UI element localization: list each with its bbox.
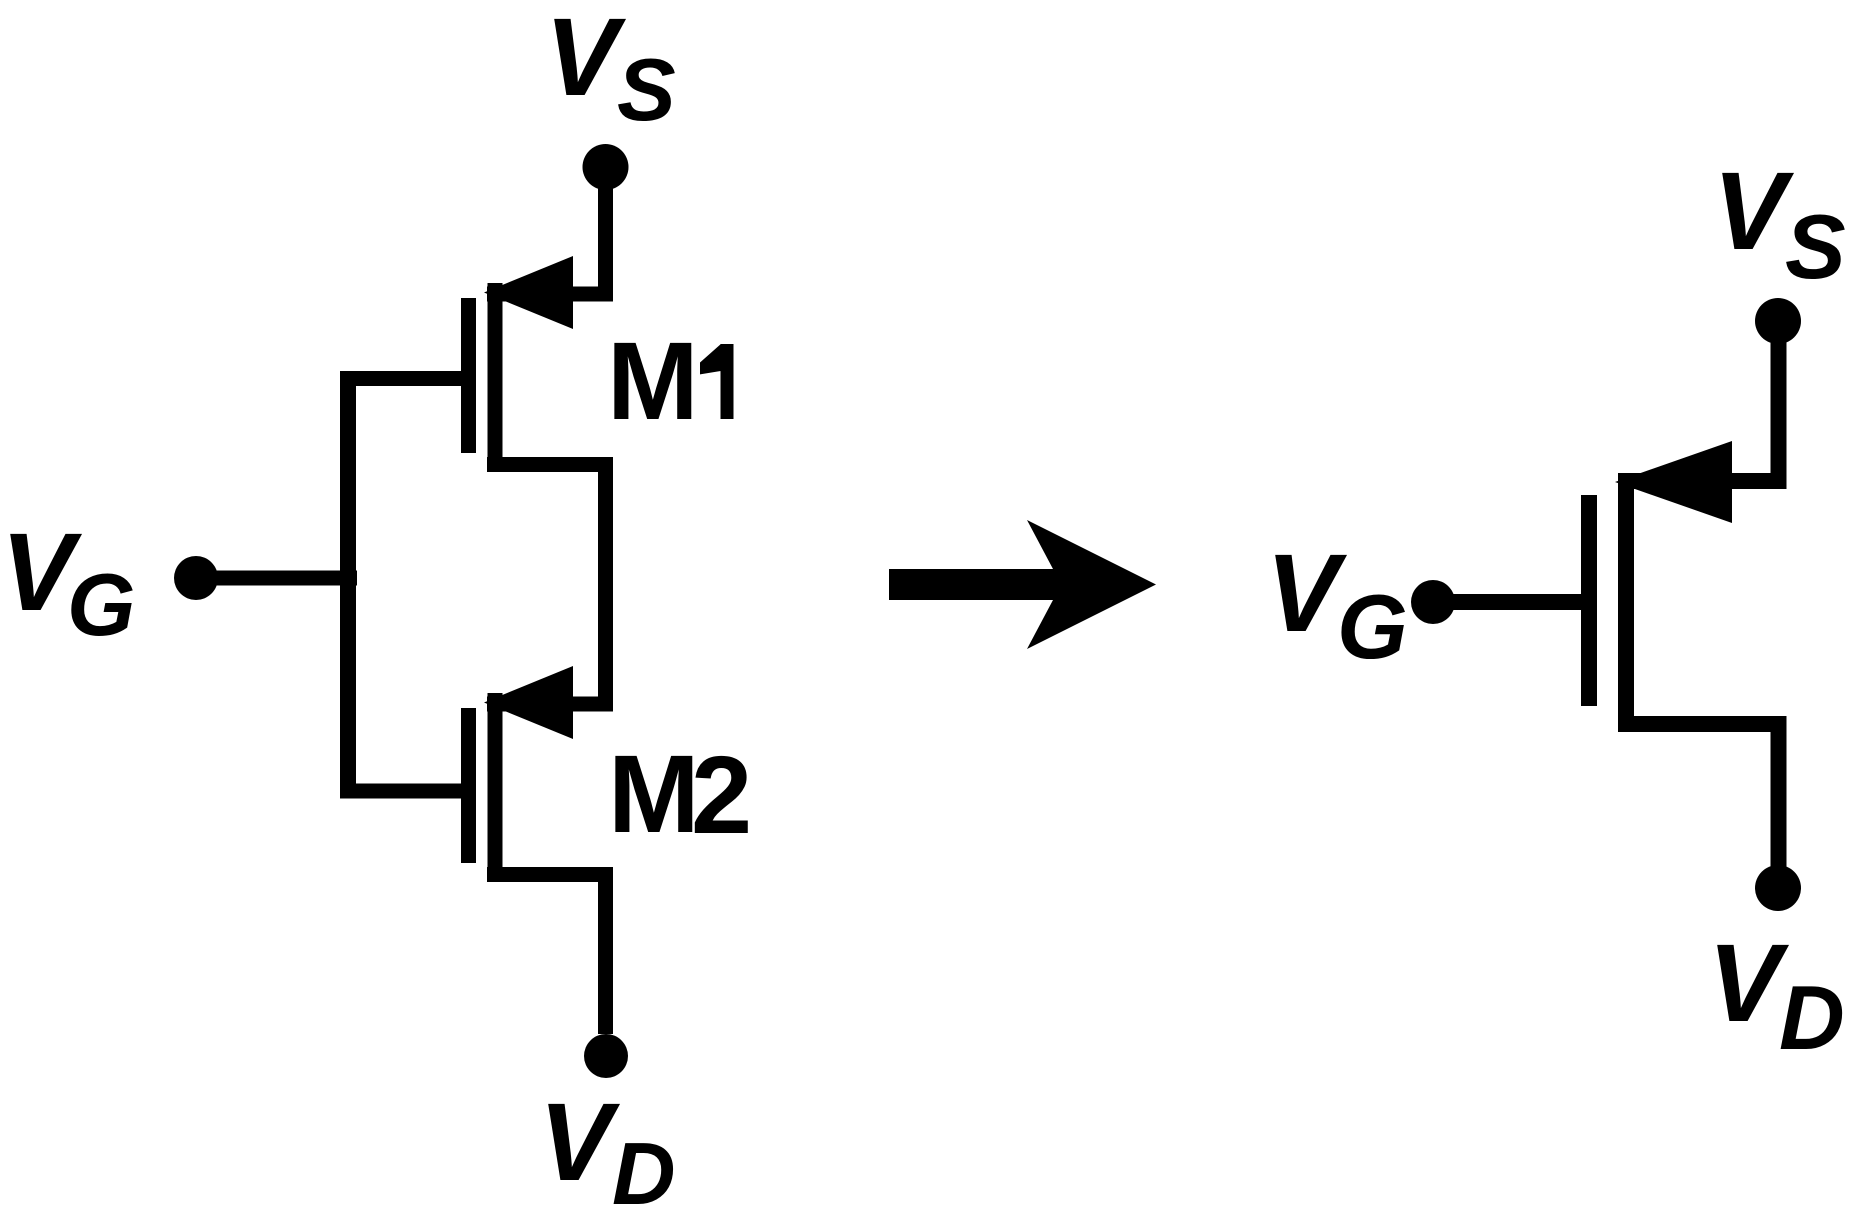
wire gate bus vertical — [340, 371, 356, 799]
svg-text:M: M — [607, 320, 699, 443]
arrow (equivalence, big right arrow) — [889, 520, 1156, 649]
node VD terminal dot (left) — [584, 1034, 628, 1078]
node VG label (right) — [1266, 532, 1408, 678]
node VS terminal dot (right) — [1755, 298, 1801, 344]
wire M2 gate — [340, 784, 461, 799]
svg-text:D: D — [1779, 968, 1845, 1069]
label M1 — [607, 320, 734, 443]
node VS label (right) — [1713, 150, 1846, 298]
transistor M2 — [461, 666, 613, 882]
node VG terminal dot (right) — [1411, 580, 1455, 624]
wire M2 drain to VD — [598, 874, 613, 1034]
node VD label (left) — [539, 1081, 676, 1221]
node VS label (left) — [545, 0, 676, 139]
svg-text:V: V — [545, 0, 627, 119]
wire M1 drain to M2 source — [598, 457, 613, 711]
transistor M (right, merged equivalent) — [1581, 441, 1787, 732]
label M2 — [608, 733, 752, 857]
svg-text:S: S — [1785, 197, 1846, 298]
transistor M1 — [461, 256, 613, 472]
wire VG to gate (right) — [1433, 594, 1581, 610]
svg-text:V: V — [539, 1081, 621, 1204]
wire VS to M1 source — [598, 167, 613, 301]
svg-text:2: 2 — [691, 734, 752, 857]
node VD terminal dot (right) — [1755, 865, 1801, 911]
svg-text:S: S — [617, 40, 676, 139]
svg-text:V: V — [1266, 532, 1348, 655]
wire VS to M source (right) — [1771, 321, 1787, 488]
node VG label (left) — [1, 511, 135, 654]
svg-text:V: V — [1708, 922, 1790, 1045]
wire M drain to VD (right) — [1771, 724, 1787, 888]
svg-text:D: D — [612, 1124, 676, 1221]
wire VG to gate bus — [196, 571, 357, 586]
node VG terminal dot (left) — [174, 556, 218, 600]
svg-text:M: M — [608, 733, 700, 856]
wire M1 gate — [340, 371, 461, 386]
svg-text:G: G — [67, 555, 135, 654]
node VS terminal dot (left) — [583, 144, 629, 190]
svg-text:G: G — [1337, 577, 1408, 678]
node VD label (right) — [1708, 922, 1845, 1069]
svg-text:V: V — [1713, 150, 1795, 273]
